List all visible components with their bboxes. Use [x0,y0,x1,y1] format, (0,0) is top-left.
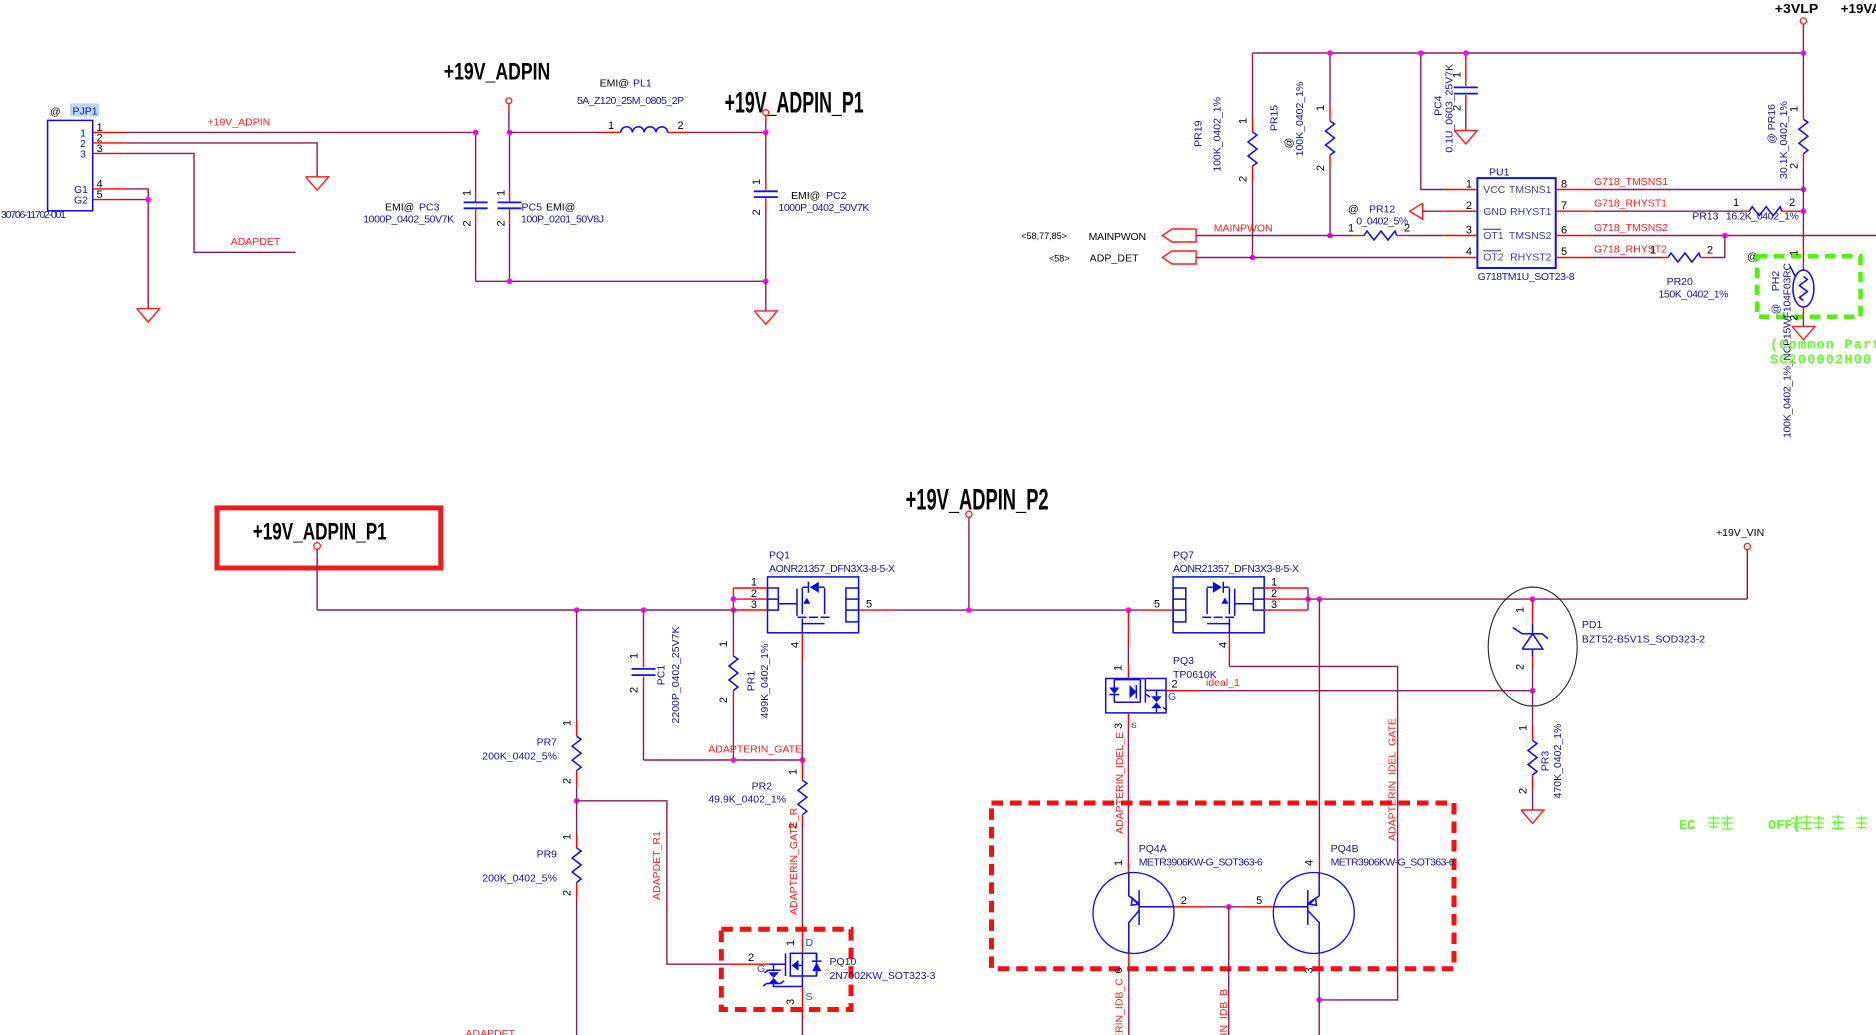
svg-text:PR7: PR7 [537,737,558,749]
junction PR1 bottom [731,757,737,763]
svg-text:3: 3 [751,599,757,611]
svg-text:METR3906KW-G_SOT363-6: METR3906KW-G_SOT363-6 [1331,857,1455,869]
svg-text:1: 1 [562,834,574,840]
svg-text:2: 2 [1181,895,1187,907]
svg-text:3: 3 [1271,599,1277,611]
svg-text:6: 6 [1561,225,1567,237]
svg-text:100P_0201_50V8J: 100P_0201_50V8J [521,214,604,226]
svg-text:1: 1 [628,653,640,659]
svg-text:1: 1 [1271,577,1277,589]
svg-text:D: D [806,937,814,949]
resistor PR7 [482,610,581,801]
wire ADAPDET stub [126,153,296,252]
PJP1 pin 3 [93,143,126,155]
svg-text:4: 4 [1304,860,1316,866]
svg-text:7: 7 [1561,200,1567,212]
svg-text:PC5: PC5 [522,202,543,214]
port MAINPWON [1021,223,1352,243]
IC PU1 G718TM1U [1477,167,1574,283]
svg-text:PR3: PR3 [1539,751,1551,772]
svg-text:ADAPTERIN_GATE: ADAPTERIN_GATE [708,744,802,756]
junction PD1 bottom [1530,688,1536,694]
PQ7 pin connector 1-2-3 [1305,588,1311,610]
svg-text:BZT52-B5V1S_SOD323-2: BZT52-B5V1S_SOD323-2 [1582,634,1705,646]
svg-text:G718_RHYST1: G718_RHYST1 [1594,198,1667,210]
capacitor PC3 [363,132,487,281]
svg-text:G718TM1U_SOT23-8: G718TM1U_SOT23-8 [1478,271,1575,283]
svg-text:GND: GND [1483,206,1507,218]
capacitor PC5 [495,132,604,281]
svg-text:1: 1 [751,577,757,589]
svg-text:200K_0402_5%: 200K_0402_5% [482,873,557,885]
svg-text:5: 5 [1256,895,1262,907]
PJP1 pin 2 [93,132,126,144]
wire PR16 to PH2 [1802,190,1804,249]
junction PR7 top [574,607,580,613]
svg-text:PL1: PL1 [633,78,652,90]
svg-text:1: 1 [1113,665,1125,671]
svg-text:499K_0402_1%: 499K_0402_1% [759,644,771,719]
svg-text:2N7002KW_SOT323-3: 2N7002KW_SOT323-3 [830,970,936,982]
svg-text:2: 2 [1515,664,1527,670]
resistor PR15 [1269,53,1335,236]
svg-text:1: 1 [788,769,800,775]
svg-text:PQ1: PQ1 [769,550,790,562]
svg-text:1: 1 [1452,72,1464,78]
svg-text:<58>: <58> [1049,254,1070,264]
PQ1 pin 1 [733,577,767,589]
junction G2 [145,197,151,203]
svg-text:S: S [806,991,813,1003]
svg-text:470K_0402_1%: 470K_0402_1% [1552,724,1564,799]
resistor PR19 [1192,53,1257,258]
svg-text:2: 2 [748,952,754,964]
junction PQ4B drop [1317,596,1323,602]
ground (PR3) [1521,810,1544,823]
svg-text:TMSNS1: TMSNS1 [1509,184,1552,196]
svg-text:2200P_0402_25V7K: 2200P_0402_25V7K [670,627,682,724]
wire ADAPTERIN_IDB_B [1228,907,1230,1035]
PJP1 pin 5 [93,189,126,201]
PU1 pin 8 [1556,179,1593,191]
inductor PL1 [577,78,686,133]
svg-text:ADAPTERIN_IDB_B: ADAPTERIN_IDB_B [1218,989,1230,1035]
svg-text:2: 2 [495,220,507,226]
svg-text:ADAPTERIN_IDEL_E: ADAPTERIN_IDEL_E [1114,732,1126,834]
svg-text:3: 3 [1113,723,1125,729]
junction PD1 top [1530,596,1536,602]
svg-text:1: 1 [1348,223,1354,235]
svg-text:1: 1 [1466,179,1472,191]
svg-text:OT2: OT2 [1483,252,1504,264]
svg-text:+19V_ADPIN_P2: +19V_ADPIN_P2 [906,483,1049,516]
junction PC1 top [641,607,647,613]
svg-text:PR19: PR19 [1192,120,1204,146]
svg-text:4: 4 [1466,246,1472,258]
svg-text:1: 1 [1789,250,1801,256]
PJP1 pin 4 [93,178,126,190]
wire ADAPTERIN_GATE [644,759,803,761]
svg-text:2: 2 [1789,197,1795,209]
PQ7 pin 4 [1218,633,1230,667]
svg-text:PQ4A: PQ4A [1139,843,1167,855]
net label G718_RHYST2 / resistor PR20 [1593,236,1729,301]
PQ1 pin 4 [789,633,802,760]
svg-text:2: 2 [1466,200,1472,212]
svg-text:2: 2 [462,220,474,226]
svg-text:3: 3 [1466,225,1472,237]
svg-text:1: 1 [1650,245,1656,257]
PU1 pin 7 [1556,200,1593,212]
ground (PC4) [1454,131,1477,144]
svg-text:VCC: VCC [1483,184,1506,196]
svg-text:1: 1 [718,641,730,647]
svg-text:6: 6 [1113,967,1125,973]
svg-text:1: 1 [1315,105,1327,111]
svg-text:2: 2 [562,778,574,784]
svg-text:PQ3: PQ3 [1173,655,1194,667]
junction PQ3 drop [1126,607,1132,613]
power port +19V_ADPIN [506,98,512,132]
resistor PR3 [1518,691,1565,810]
svg-text:5: 5 [1561,246,1567,258]
ground (G2) [137,309,160,322]
svg-text:2: 2 [751,209,763,215]
PQ1 pin 2 [733,588,767,600]
junction PC4 top [1463,50,1469,56]
PQ7 pin 3 [1264,599,1308,611]
PU1 pin 1 [1444,179,1478,191]
svg-text:1: 1 [495,190,507,196]
svg-text:1: 1 [1113,860,1125,866]
svg-text:AONR21357_DFN3X3-8-5-X: AONR21357_DFN3X3-8-5-X [1173,563,1299,575]
resistor PR9 [482,801,581,1035]
junction ADAPTERIN_GATE [800,757,806,763]
PU1 pin 4 [1444,246,1478,258]
svg-text:PR2: PR2 [752,781,773,793]
svg-text:8: 8 [1561,179,1567,191]
svg-text:PC3: PC3 [419,202,440,214]
highlight box +19V_ADPIN_P1 [217,508,441,568]
junction PR19 / ADP_DET [1250,255,1256,261]
wire PQ3 drop [1127,610,1129,678]
junction VCC drop [1418,50,1424,56]
wire PQ3 source down [1127,713,1129,873]
svg-text:G718_TMSNS2: G718_TMSNS2 [1594,222,1668,234]
svg-text:EMI@: EMI@ [546,202,575,214]
dashed box PQ4 [992,803,1455,969]
junction bottom PC2 [763,279,769,285]
note EC control (green) [1679,815,1867,834]
svg-text:EMI@: EMI@ [600,78,629,90]
wire to ground [765,281,767,311]
svg-text:49.9K_0402_1%: 49.9K_0402_1% [708,794,786,806]
svg-text:ADAPTERIN_GATE_R: ADAPTERIN_GATE_R [788,807,800,915]
svg-text:1: 1 [1518,725,1530,731]
svg-text:TMSNS2: TMSNS2 [1509,230,1552,242]
svg-text:2: 2 [1238,176,1250,182]
power port +19V_ADPIN_P1 (lower) [314,543,321,610]
svg-text:PC2: PC2 [826,190,847,202]
junction IDEL_GATE / PQ4B [1316,997,1322,1003]
svg-text:4: 4 [789,642,801,648]
svg-text:30706-11702-001: 30706-11702-001 [1,209,66,221]
PU1 pin 2 [1444,200,1478,212]
power port +19V_ADPIN_P1 [763,110,769,133]
PQ1 pin 5 [859,599,893,611]
junction base wire / IDB_B [1226,904,1232,910]
svg-text:1: 1 [1733,197,1739,209]
svg-text:+19VA: +19VA [1841,1,1876,16]
wire pin2 to ground [126,143,317,177]
svg-text:PH2: PH2 [1770,271,1782,292]
svg-text:ideal_1: ideal_1 [1206,677,1240,689]
net label G718_TMSNS1 [1593,176,1806,192]
svg-text:ADAPDET: ADAPDET [466,1028,516,1035]
svg-text:2: 2 [628,687,640,693]
resistor PR16 [1766,53,1808,190]
svg-text:EMI@: EMI@ [385,202,414,214]
svg-text:PR13: PR13 [1692,211,1718,223]
svg-text:+19V_VIN: +19V_VIN [1716,527,1764,539]
wire to inductor [510,131,602,133]
transistor PQ4B [1273,843,1454,1035]
MOSFET PQ10 [721,925,935,1035]
svg-text:1: 1 [1515,607,1527,613]
svg-text:3: 3 [80,148,86,160]
svg-text:2: 2 [562,890,574,896]
svg-text:100K_0402_1%: 100K_0402_1% [1212,97,1224,172]
zener diode PD1 [1488,587,1705,706]
svg-text:ADAPTERIN_IDEL_GATE: ADAPTERIN_IDEL_GATE [1386,718,1398,841]
svg-text:+19V_ADPIN_P1: +19V_ADPIN_P1 [253,518,387,545]
power port +3VLP [1775,1,1819,56]
PU1 pin 6 [1556,225,1593,237]
wire ADAPTERIN_IDEL_GATE [1229,666,1397,1000]
wire filter bottom [476,280,766,282]
svg-text:SC200002H00: SC200002H00 [1770,354,1872,369]
svg-text:EC: EC [1679,819,1695,834]
junction PC3 top [473,130,479,136]
wire +19V_ADPIN (pin1 to filter) [126,131,476,133]
svg-text:0_0402_5%: 0_0402_5% [1356,216,1408,228]
svg-text:PU1: PU1 [1489,167,1510,179]
PU1 pin 3 [1444,225,1478,237]
svg-text:PQ7: PQ7 [1173,550,1194,562]
svg-text:ADP_DET: ADP_DET [1090,253,1140,265]
svg-text:<58,77,85>: <58,77,85> [1021,231,1067,241]
svg-text:2: 2 [1518,788,1530,794]
svg-text:2: 2 [678,120,684,132]
svg-text:+3VLP: +3VLP [1775,1,1819,16]
PQ1 pin connector 1-2-3 [732,588,734,610]
svg-text:OT1: OT1 [1483,230,1504,242]
svg-text:5A_Z120_25M_0805_2P: 5A_Z120_25M_0805_2P [577,95,684,107]
thermistor PH2 [1747,248,1861,326]
svg-text:4: 4 [1218,642,1230,648]
svg-text:PD1: PD1 [1582,619,1603,631]
junction PC5 top [507,130,513,136]
svg-text:PC1: PC1 [656,665,668,686]
svg-text:G718_TMSNS1: G718_TMSNS1 [1594,176,1668,188]
wire PQ3 gate (ideal_1) [1166,690,1533,692]
svg-text:RHYST2: RHYST2 [1510,252,1552,264]
svg-text:PR9: PR9 [537,849,558,861]
svg-text:1: 1 [785,940,797,946]
svg-text:(Common Part: (Common Part [1770,339,1876,354]
MOSFET PQ3 [1106,655,1217,731]
junction PR15 top [1327,50,1333,56]
svg-text:PQ10: PQ10 [830,956,857,968]
svg-text:2: 2 [1404,223,1410,235]
resistor PR12 [1348,204,1444,241]
svg-text:G: G [1168,691,1176,703]
svg-text:2: 2 [1172,679,1178,691]
wire inductor to P1 [686,131,765,133]
svg-text:2: 2 [718,697,730,703]
wire ADAPDET_R1 jog [577,801,730,964]
svg-text:MAINPWON: MAINPWON [1214,223,1273,235]
svg-text:PR15: PR15 [1269,105,1281,131]
svg-text:@: @ [1348,204,1359,216]
MOSFET PQ1 [768,550,896,633]
svg-text:METR3906KW-G_SOT363-6: METR3906KW-G_SOT363-6 [1139,857,1263,869]
svg-text:1: 1 [751,179,763,185]
svg-text:1: 1 [608,120,614,132]
power port +19V_VIN [1716,527,1764,599]
svg-text:AONR21357_DFN3X3-8-5-X: AONR21357_DFN3X3-8-5-X [769,563,895,575]
PQ7 pin 2 [1264,588,1308,600]
svg-text:s: s [1132,719,1137,731]
PQ1 pin 3 [733,599,767,611]
svg-text:ADAPDET_R1: ADAPDET_R1 [651,831,663,900]
svg-text:+19V_ADPIN: +19V_ADPIN [444,59,551,86]
wire PQ1 to PQ7 [893,609,1139,611]
PU1 pin 5 [1556,246,1593,258]
svg-text:G: G [757,963,765,975]
PQ7 pin 5 [1139,599,1173,611]
wire top bus [1253,52,1804,54]
ground (pin2) [306,177,329,190]
wire PQ4B emitter up [1318,599,1320,872]
junction P1 [763,130,769,136]
svg-text:PQ4B: PQ4B [1331,843,1359,855]
svg-text:EMI@: EMI@ [791,190,820,202]
svg-text:+19V_ADPIN: +19V_ADPIN [208,117,271,129]
PJP1 pin 1 [93,122,126,134]
junction PR15 / MAINPWON [1327,233,1333,239]
power port +19V_ADPIN_P2 [966,511,972,613]
svg-text:ADAPDET: ADAPDET [231,236,281,248]
resistor PR2 [708,760,807,925]
wire main lower rail [317,609,733,611]
svg-text:1: 1 [1789,106,1801,112]
resistor PR1 [718,610,771,760]
capacitor PC2 [751,132,870,281]
svg-text:@: @ [50,106,61,118]
svg-text:PJP1: PJP1 [73,106,98,118]
junction PR1 top [731,607,737,613]
transistor PQ4A [1093,843,1274,1035]
svg-text:1000P_0402_50V7K: 1000P_0402_50V7K [778,202,869,214]
capacitor PC1 [628,610,682,760]
svg-text:5: 5 [1154,599,1160,611]
svg-text:2: 2 [1789,163,1801,169]
wire +19V rail (PQ7 to PD1) [1308,598,1747,600]
svg-text:+19V_ADPIN_P1: +19V_ADPIN_P1 [725,86,864,119]
svg-text:PR1: PR1 [746,671,758,692]
GND arrow port [1410,203,1444,219]
net label G718_RHYST1 / resistor PR13 [1593,197,1806,223]
ground (filter) [754,311,777,324]
MOSFET PQ7 [1173,550,1299,633]
PQ7 pin 1 [1264,577,1308,589]
svg-text:1: 1 [1238,118,1250,124]
svg-text:200K_0402_5%: 200K_0402_5% [482,751,557,763]
svg-text:PR12: PR12 [1369,204,1395,216]
svg-text:3: 3 [1304,967,1316,973]
svg-text:1: 1 [562,720,574,726]
ground (PH2) [1792,326,1815,339]
svg-text:1: 1 [462,190,474,196]
wire G2 to ground [126,200,148,309]
wire VCC drop [1421,53,1444,190]
svg-text:2: 2 [1315,165,1327,171]
svg-text:2: 2 [1452,105,1464,111]
svg-text:100K_0402_1%: 100K_0402_1% [1294,82,1306,157]
svg-text:ADAPTERIN_IDB_C: ADAPTERIN_IDB_C [1113,978,1125,1035]
svg-text:G718_RHYST2: G718_RHYST2 [1594,244,1667,256]
connector PJP1 [1,104,99,222]
svg-text:RHYST1: RHYST1 [1510,206,1552,218]
svg-text:150K_0402_1%: 150K_0402_1% [1659,288,1729,300]
capacitor PC4 [1433,53,1478,153]
net label G718_TMSNS2 [1593,222,1876,238]
junction ADAPDET_R1 [574,798,580,804]
svg-text:MAINPWON: MAINPWON [1089,231,1147,243]
port ADP_DET [1049,251,1444,265]
svg-text:3: 3 [785,999,797,1005]
svg-text:@: @ [1770,304,1782,315]
svg-text:1000P_0402_50V7K: 1000P_0402_50V7K [363,214,454,226]
svg-text:2: 2 [1707,245,1713,257]
svg-text:G2: G2 [74,195,88,207]
junction bottom PC5 [507,279,513,285]
svg-text:@ PR16: @ PR16 [1766,104,1778,144]
svg-text:PR20: PR20 [1667,276,1693,288]
wire G1 [126,189,148,200]
svg-text:5: 5 [866,599,872,611]
